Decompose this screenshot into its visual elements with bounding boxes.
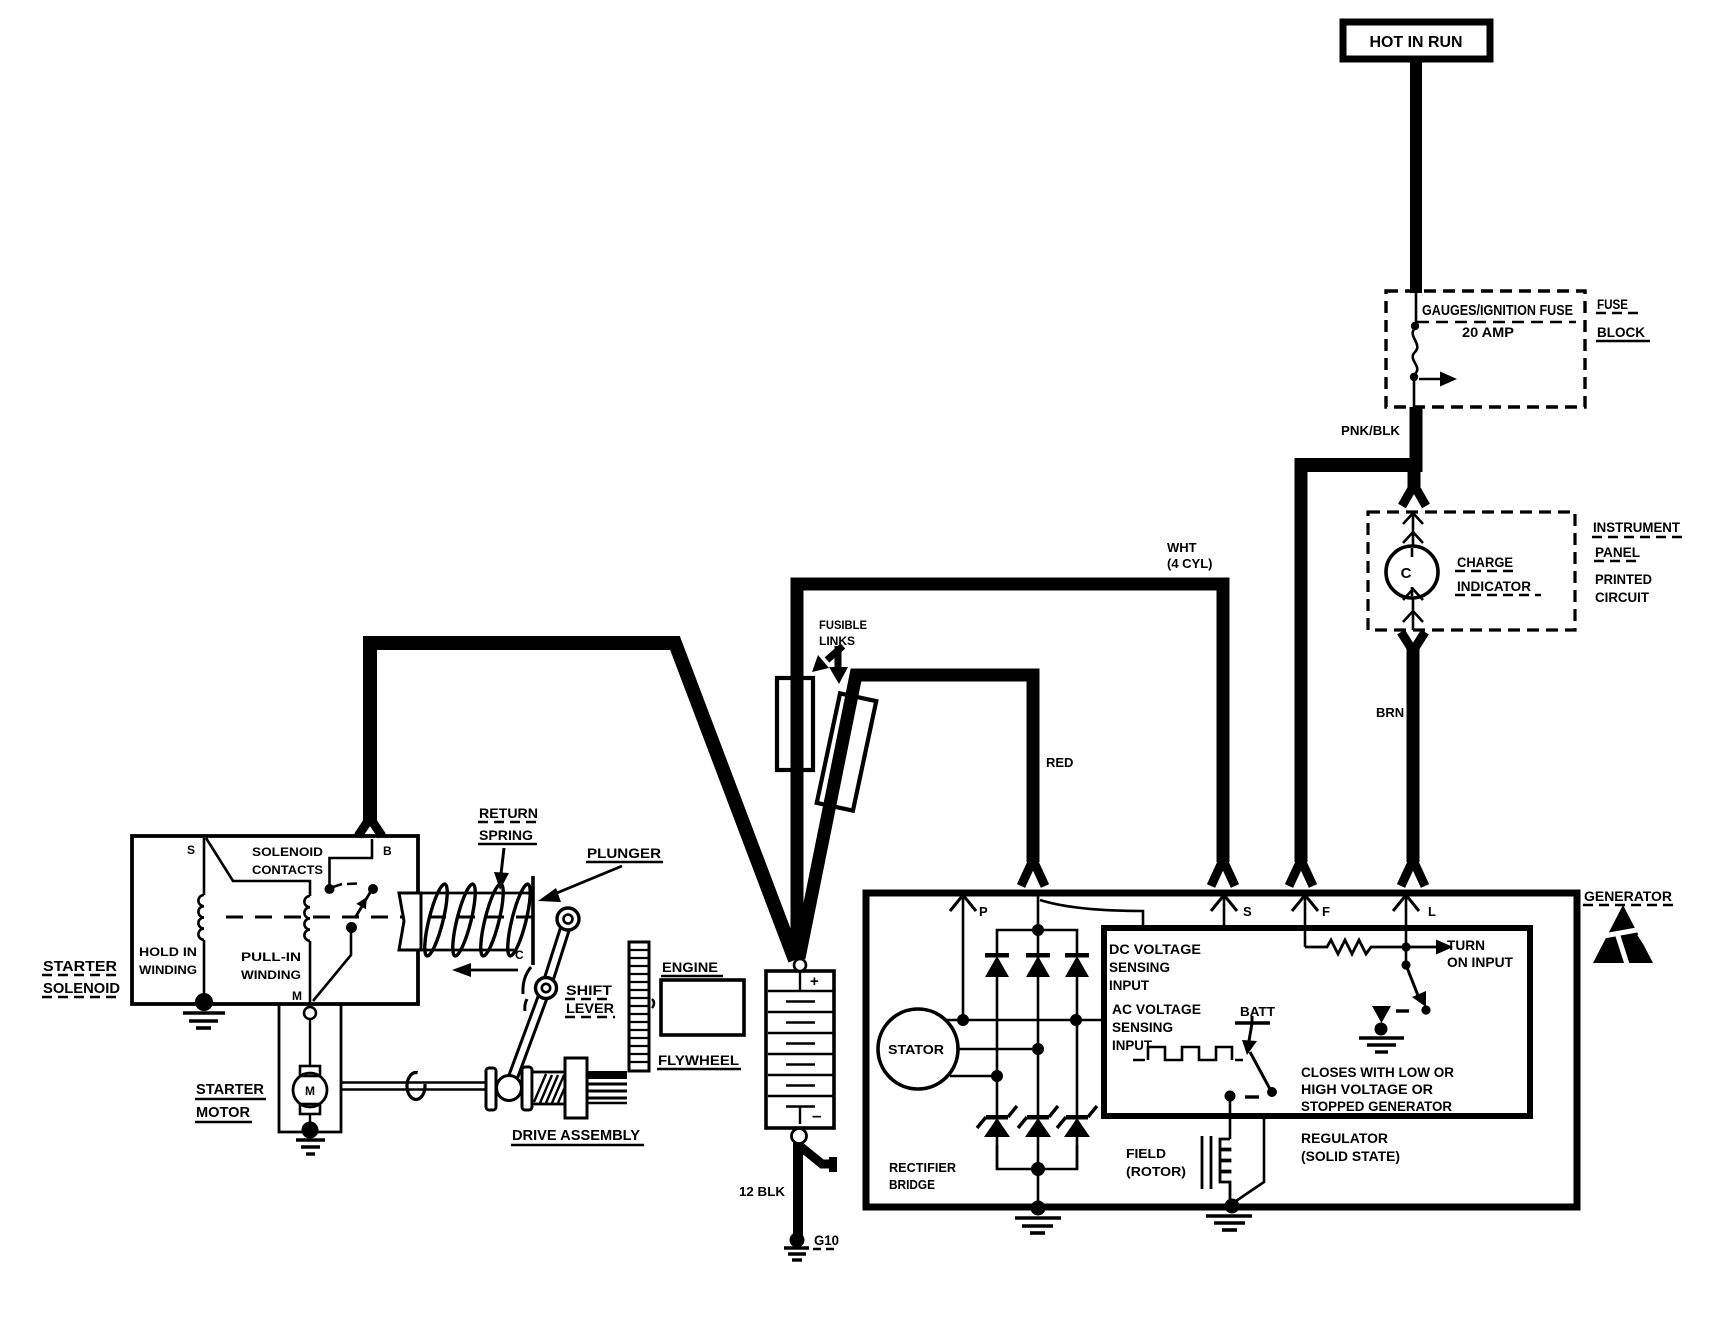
gear to engine tick (652, 999, 654, 1008)
switch fixed contact dash (1396, 1009, 1409, 1012)
svg-text:STARTER: STARTER (196, 1081, 264, 1098)
svg-text:SOLENOID: SOLENOID (43, 980, 120, 997)
svg-text:MOTOR: MOTOR (196, 1104, 250, 1121)
terminal F chevron (1292, 895, 1318, 911)
svg-text:FUSE: FUSE (1597, 296, 1628, 312)
svg-text:WINDING: WINDING (139, 963, 197, 977)
battery cell plates (768, 972, 833, 1124)
svg-text:STATOR: STATOR (888, 1042, 945, 1057)
starter solenoid box (132, 836, 418, 1004)
ground (starter motor) (302, 1122, 319, 1139)
wire HOT IN RUN to fuse block (vertical feed) (1410, 59, 1422, 293)
wire S to hold-in winding (203, 838, 206, 895)
svg-text:LINKS: LINKS (819, 634, 855, 648)
resistor R (field feed, between F and L) (1305, 940, 1406, 954)
wire BRN charge indicator to L terminal (1407, 648, 1420, 862)
wire B terminal feed (solenoid B up, across, diagonal to battery +) (370, 643, 795, 960)
wire regulator to field return (1233, 1116, 1264, 1203)
wire S to pull-in winding (diagonal + horizontal) (206, 838, 310, 896)
svg-text:CONTACTS: CONTACTS (252, 863, 323, 877)
wire fork into charge indicator (1402, 485, 1426, 506)
svg-text:PANEL: PANEL (1595, 544, 1640, 560)
ground G10 (battery) (790, 1233, 805, 1248)
charge indicator lamp feed line with chevrons (1403, 512, 1423, 630)
arrow to fusible link 2 (835, 646, 842, 668)
svg-text:PRINTED: PRINTED (1595, 571, 1652, 587)
arrow TURN ON INPUT (1406, 946, 1437, 949)
ESD caution symbol (1593, 905, 1654, 964)
wire contact arm to M (313, 927, 351, 1001)
charge indicator dashed box (instrument panel) (1368, 512, 1575, 630)
return spring coils (420, 882, 534, 957)
svg-text:RETURN: RETURN (479, 805, 538, 821)
drive assembly flange 1 (486, 1068, 496, 1110)
svg-text:BRIDGE: BRIDGE (889, 1177, 935, 1192)
terminal S chevron (1211, 895, 1237, 911)
wire stub from battery negative (cable end) (801, 1147, 836, 1164)
wire PNK/BLK fuse block down to junction (1410, 407, 1423, 472)
svg-text:SPRING: SPRING (479, 827, 533, 843)
wire P terminal to stator phase line (962, 896, 965, 1020)
lamp CHARGE INDICATOR (circle with C) (1386, 546, 1438, 598)
diode D3 (1065, 953, 1089, 977)
svg-text:S: S (187, 843, 195, 857)
plunger face plate (531, 876, 535, 965)
node junction phase A column 3 (1070, 1014, 1082, 1026)
fusible link 2 (tilted, on RED feed) (817, 693, 876, 810)
wire B to fixed contact (330, 839, 373, 885)
diode D2 (1026, 953, 1050, 977)
drive assembly pinion collar (565, 1058, 587, 1118)
plunger axis dashed line (226, 916, 545, 919)
svg-text:TURN: TURN (1447, 937, 1485, 953)
svg-text:GAUGES/IGNITION FUSE: GAUGES/IGNITION FUSE (1422, 303, 1573, 319)
battery case (766, 971, 834, 1128)
svg-text:C: C (1401, 565, 1412, 582)
svg-text:+: + (810, 973, 819, 990)
svg-text:(ROTOR): (ROTOR) (1126, 1164, 1186, 1179)
svg-text:FIELD: FIELD (1126, 1146, 1166, 1161)
shift lever middle pivot (536, 978, 557, 999)
svg-text:SHIFT: SHIFT (566, 982, 612, 998)
svg-text:M: M (305, 1084, 315, 1098)
svg-text:CIRCUIT: CIRCUIT (1595, 589, 1649, 605)
wire fork at F terminal (1289, 860, 1313, 886)
battery - terminal post (792, 1129, 807, 1144)
svg-text:FLYWHEEL: FLYWHEEL (658, 1052, 739, 1068)
wire stator phase C to diode column 1 (950, 1075, 997, 1078)
svg-text:20 AMP: 20 AMP (1462, 324, 1514, 340)
svg-text:B: B (383, 844, 392, 858)
svg-text:S: S (1243, 904, 1252, 919)
shaft collar ring (407, 1073, 425, 1100)
shift lever upper arm (509, 919, 568, 1088)
BATT switch T-bar (1235, 1021, 1270, 1024)
node HOT IN RUN power tag (1343, 22, 1490, 59)
shift lever ball end (497, 1076, 522, 1101)
wire fork at solenoid B terminal (358, 818, 382, 836)
wire DC voltage sensing tap from output terminal (1040, 900, 1143, 928)
arrow to fusible link 1 (827, 646, 843, 660)
svg-text:SENSING: SENSING (1112, 1019, 1173, 1035)
wire battery negative to ground G10 (793, 1143, 803, 1238)
svg-text:M: M (292, 989, 302, 1003)
wire fork out of charge indicator (1401, 632, 1425, 651)
stator (circle) (878, 1009, 958, 1089)
shift lever top pivot (557, 908, 579, 930)
svg-text:AC VOLTAGE: AC VOLTAGE (1112, 1001, 1201, 1017)
svg-text:ON INPUT: ON INPUT (1447, 954, 1513, 970)
node L/resistor junction (1401, 942, 1410, 951)
svg-text:(4 CYL): (4 CYL) (1167, 556, 1213, 571)
svg-text:STOPPED GENERATOR: STOPPED GENERATOR (1301, 1099, 1452, 1114)
plunger core (in solenoid) (399, 893, 421, 950)
drive assembly flange 2 (522, 1067, 532, 1110)
rectifier bridge output column (from generator top edge) (1037, 896, 1040, 930)
svg-text:HIGH VOLTAGE OR: HIGH VOLTAGE OR (1301, 1082, 1433, 1097)
svg-text:STARTER: STARTER (43, 958, 117, 975)
solenoid contact (arm side) (368, 884, 378, 894)
wire fixed contact to field coil (1229, 1096, 1232, 1139)
fuse block dashed outline (1386, 291, 1585, 407)
svg-text:BATT: BATT (1240, 1004, 1275, 1019)
svg-text:REGULATOR: REGULATOR (1301, 1131, 1388, 1146)
svg-text:SOLENOID: SOLENOID (252, 845, 323, 859)
zener diode Z3 (1057, 1106, 1097, 1137)
hold-in winding coil (198, 895, 204, 940)
svg-text:F: F (1322, 904, 1330, 919)
svg-text:–: – (812, 1106, 821, 1125)
solenoid contact (B side) (325, 884, 335, 894)
svg-text:CLOSES WITH LOW OR: CLOSES WITH LOW OR (1301, 1065, 1454, 1080)
arrow plunger travel (left) (470, 969, 518, 972)
svg-text:G10: G10 (814, 1232, 839, 1248)
svg-text:BRN: BRN (1376, 705, 1404, 720)
starter motor M (300, 1066, 320, 1076)
wire junction branch to F terminal (horizontal + vertical drop) (1301, 458, 1416, 472)
wire pull-in winding to M terminal (309, 941, 312, 1005)
svg-text:FUSIBLE: FUSIBLE (819, 618, 867, 632)
BATT switch contact dash (1245, 1095, 1259, 1098)
engine block (661, 980, 744, 1035)
svg-text:L: L (1428, 904, 1436, 919)
regulator (solid state) inner box (1104, 928, 1530, 1116)
svg-text:CHARGE: CHARGE (1457, 554, 1513, 570)
svg-text:PULL-IN: PULL-IN (241, 950, 301, 964)
engine flywheel ring gear (629, 942, 649, 1071)
wire stator phase B to diode column 2 (957, 1048, 1038, 1051)
svg-text:WINDING: WINDING (241, 968, 301, 982)
rectifier columns verticals (997, 930, 1077, 1169)
pivot bracket arcs (523, 967, 531, 994)
drive assembly splined shaft (587, 1071, 627, 1079)
wire fork at rectifier output (1021, 860, 1045, 886)
svg-text:WHT: WHT (1167, 540, 1197, 555)
wire RED battery + to rectifier output terminal (799, 675, 1033, 958)
svg-text:BLOCK: BLOCK (1597, 324, 1645, 340)
starter motor housing (279, 1005, 341, 1132)
svg-text:HOT IN RUN: HOT IN RUN (1370, 34, 1463, 51)
wire S terminal into regulator (1223, 896, 1226, 928)
fusible link 1 (vertical, on WHT feed) (777, 678, 813, 770)
wire L terminal into regulator (1405, 896, 1408, 965)
svg-text:HOLD IN: HOLD IN (139, 945, 197, 959)
zener diode Z1 (977, 1106, 1017, 1137)
diode D1 (985, 953, 1009, 977)
zener diode Z2 (1018, 1106, 1058, 1137)
switch arm with arrowhead (1406, 965, 1419, 998)
wire F terminal into regulator (1304, 896, 1307, 947)
svg-text:LEVER: LEVER (566, 1000, 614, 1016)
rectifier bottom bus (997, 1145, 1077, 1169)
wire hold-in winding to ground (203, 940, 206, 1001)
terminal L chevron (1393, 895, 1419, 911)
BATT switch fixed contact (1225, 1091, 1236, 1102)
starter shaft (341, 1081, 487, 1084)
svg-text:RED: RED (1046, 755, 1073, 770)
rectifier top bus (997, 930, 1077, 955)
fixed contact to ground (triangle pin) (1372, 1006, 1391, 1023)
field (rotor) coil (1220, 1139, 1230, 1203)
wire WHT (4 CYL) battery + to S terminal (797, 584, 1223, 960)
svg-text:ENGINE: ENGINE (662, 959, 718, 975)
arrow RETURN SPRING to coil (501, 848, 504, 874)
fuse output arrow (1419, 378, 1441, 380)
plunger body top/bottom lines (421, 892, 533, 895)
field core lines (1201, 1136, 1204, 1189)
svg-text:INPUT: INPUT (1112, 1037, 1152, 1053)
svg-text:INDICATOR: INDICATOR (1457, 578, 1531, 594)
svg-text:P: P (979, 904, 988, 919)
svg-text:SENSING: SENSING (1109, 959, 1170, 975)
drive assembly spring (hatched) (532, 1072, 565, 1104)
contact gap dash (347, 882, 357, 885)
svg-text:DC VOLTAGE: DC VOLTAGE (1109, 941, 1201, 957)
svg-text:PLUNGER: PLUNGER (587, 845, 661, 861)
BATT switch arm with arrowhead (1249, 1023, 1252, 1041)
fuse F1 gauges/ignition 20A element (1413, 293, 1418, 407)
wire M to starter motor (309, 1019, 311, 1067)
AC square wave symbol (1133, 1047, 1243, 1060)
svg-text:PNK/BLK: PNK/BLK (1341, 423, 1401, 438)
wire PNK/BLK down to charge indicator (1408, 465, 1421, 487)
wire bridge common to generator case ground (1037, 1169, 1040, 1207)
svg-text:12 BLK: 12 BLK (739, 1184, 786, 1199)
ground (field/regulator) (1225, 1199, 1240, 1214)
svg-text:(SOLID STATE): (SOLID STATE) (1301, 1149, 1400, 1164)
node junction P/phase A (957, 1014, 969, 1026)
svg-text:C: C (515, 948, 524, 962)
wire motor to case ground (309, 1114, 311, 1126)
wire fork at L terminal (1401, 860, 1425, 886)
wire fork at S terminal (1211, 860, 1235, 886)
battery + terminal post (794, 959, 806, 971)
svg-text:RECTIFIER: RECTIFIER (889, 1160, 957, 1175)
switch (L circuit, regulator) pivot (1401, 960, 1410, 969)
generator outer box (866, 893, 1577, 1207)
svg-text:INSTRUMENT: INSTRUMENT (1593, 519, 1680, 535)
pull-in winding coil (304, 896, 310, 941)
solenoid contact arm with arrowhead (355, 891, 371, 918)
svg-text:DRIVE ASSEMBLY: DRIVE ASSEMBLY (512, 1127, 640, 1144)
svg-text:INPUT: INPUT (1109, 977, 1149, 993)
terminal P chevron (950, 895, 976, 911)
ground (solenoid hold-in) (195, 993, 213, 1011)
arrow PLUNGER to face plate (552, 866, 622, 895)
svg-text:GENERATOR: GENERATOR (1584, 888, 1672, 904)
wire stator phase A to diode column 3 and AC sensing input (944, 1019, 1104, 1022)
ground (rectifier bridge common) (1031, 1201, 1046, 1216)
